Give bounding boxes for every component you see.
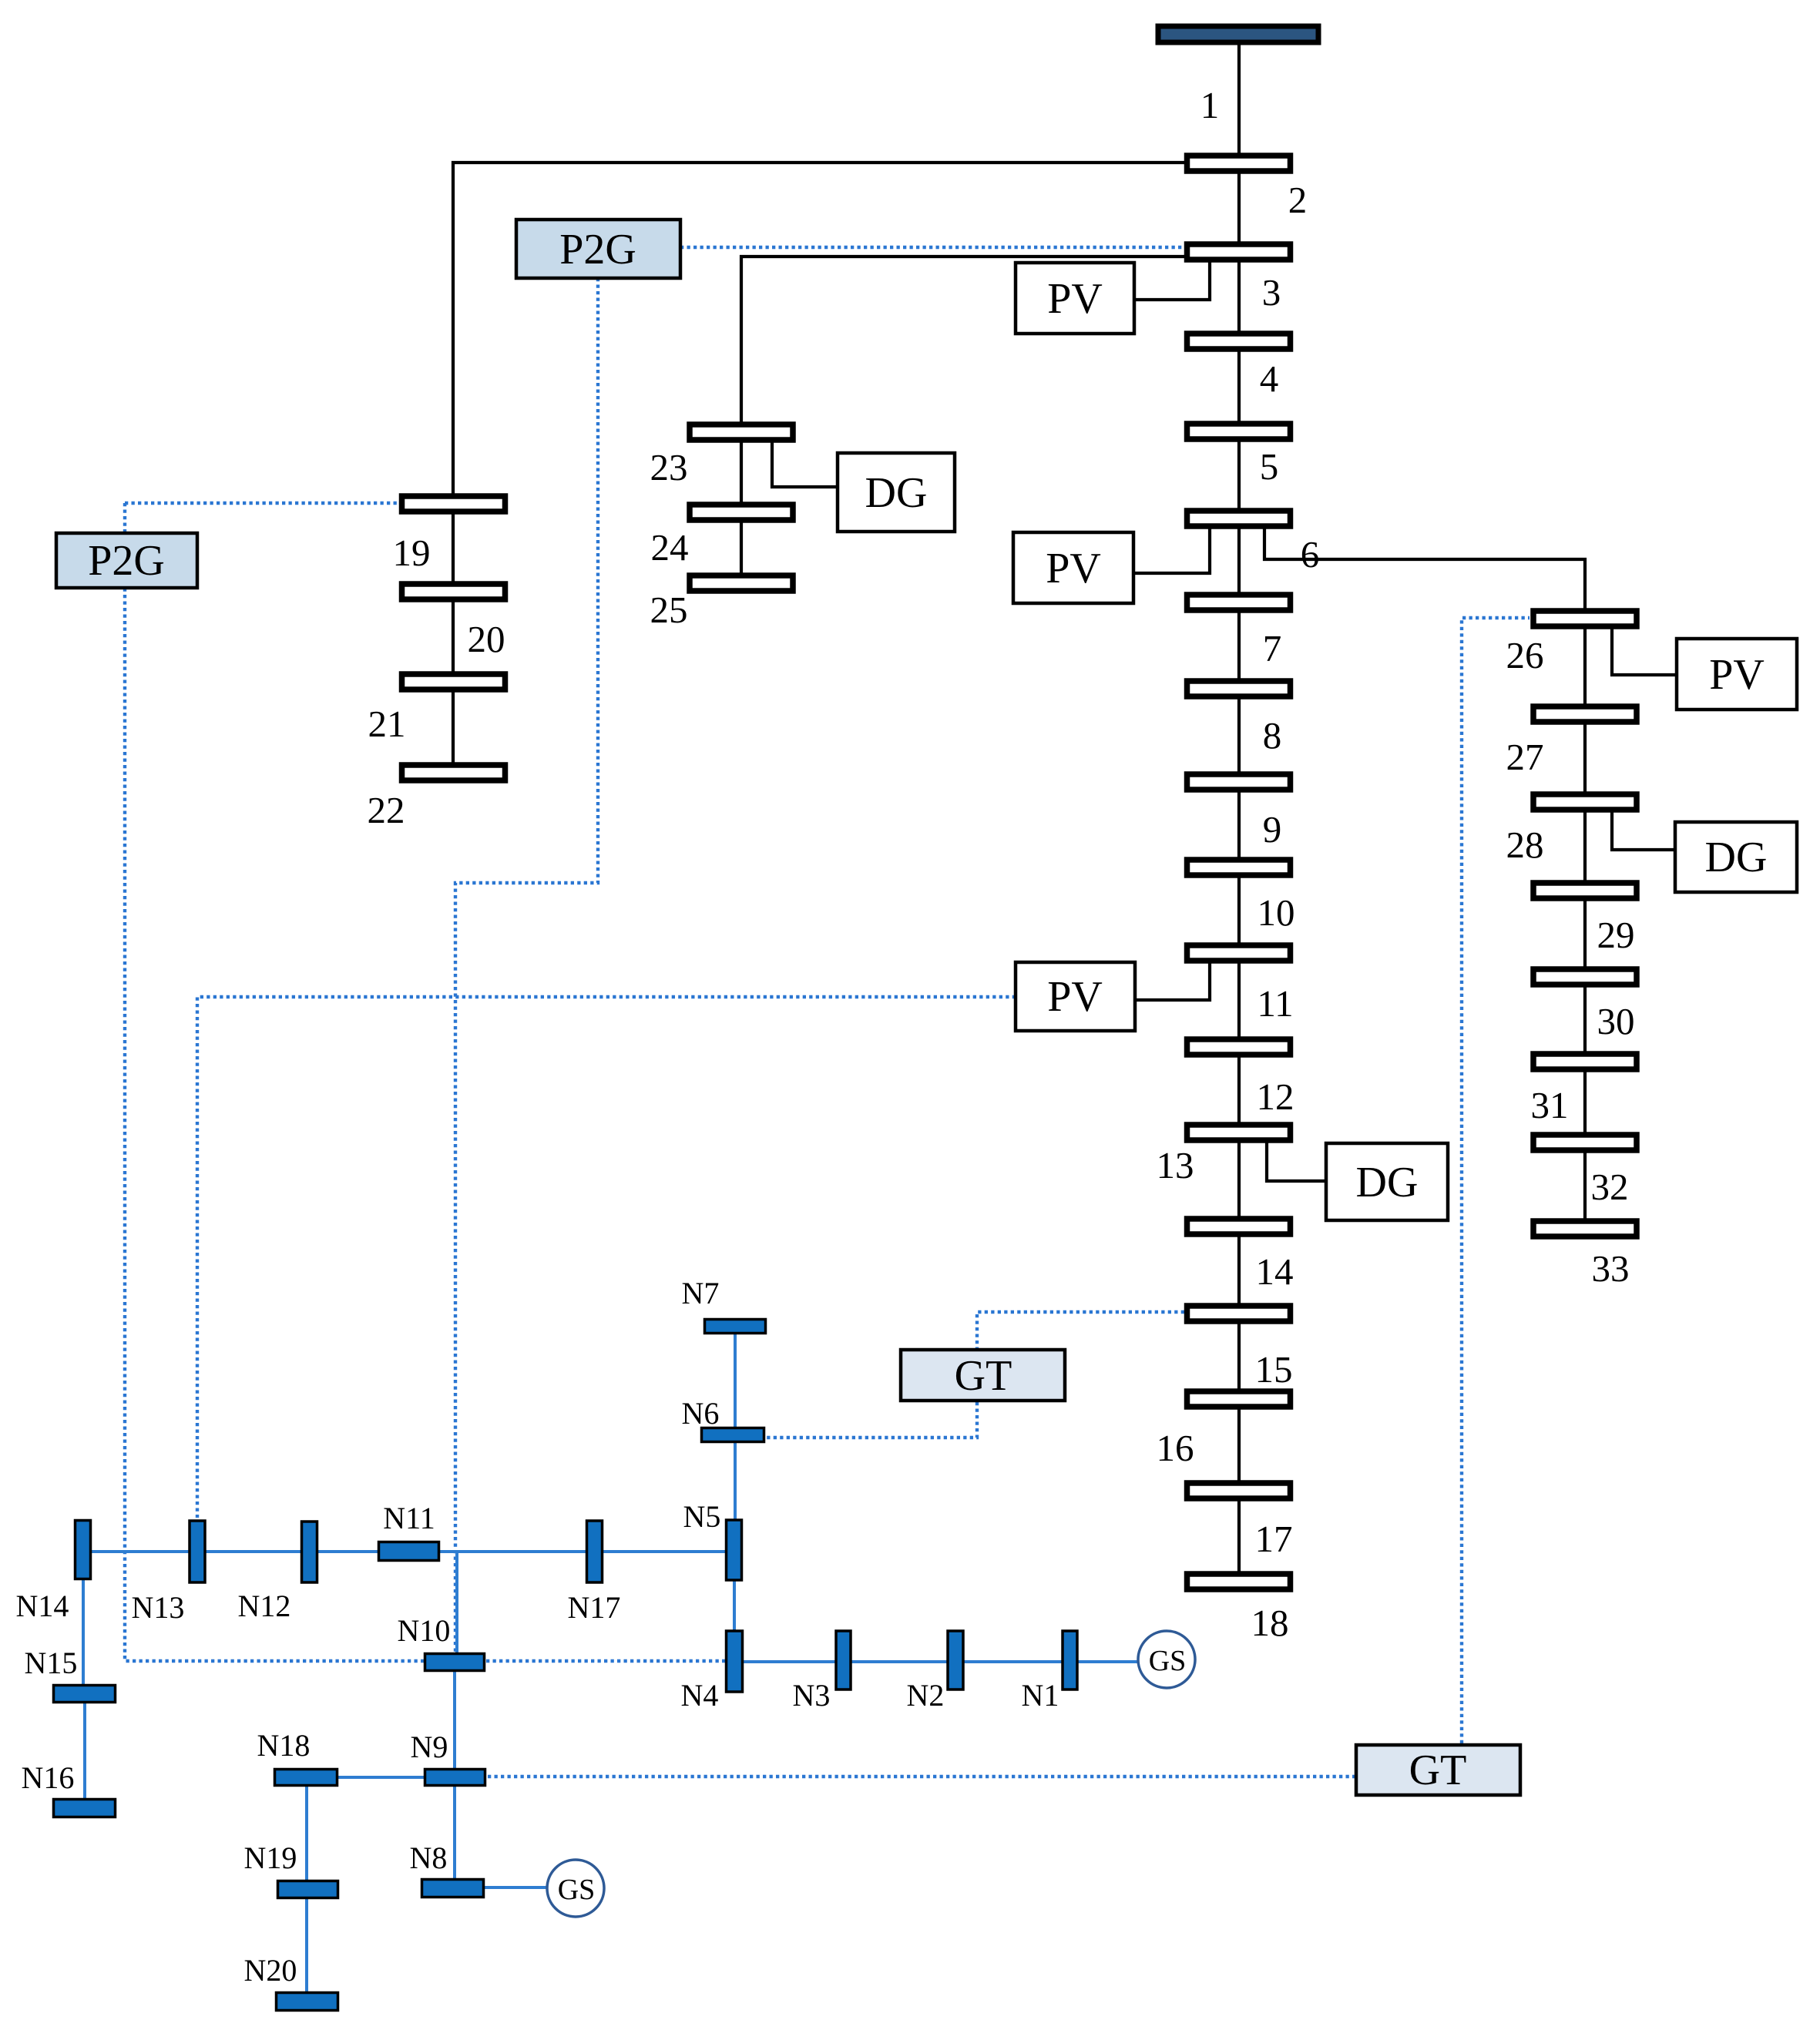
wire bus6 to PV2 [1133, 524, 1210, 573]
wire bus23 to DG1 [772, 439, 838, 487]
svg-text:12: 12 [1257, 1075, 1294, 1118]
svg-text:N17: N17 [568, 1590, 621, 1625]
bus 32 [1533, 1135, 1637, 1150]
svg-text:24: 24 [651, 526, 689, 569]
bus 29 [1533, 883, 1637, 898]
svg-text:33: 33 [1592, 1247, 1630, 1290]
pipe junction to N10 [455, 1552, 458, 1655]
svg-text:N16: N16 [22, 1760, 75, 1795]
pipe N4-GS1 [743, 1660, 1139, 1663]
bus 17 [1187, 1483, 1291, 1498]
wire bus 15 to GT1 coupling (dotted) [977, 1312, 1184, 1348]
bus 23 [690, 424, 793, 440]
svg-text:7: 7 [1263, 627, 1282, 669]
svg-text:26: 26 [1506, 634, 1544, 676]
gas node N8 [422, 1880, 484, 1897]
wire bus3 to PV1 [1134, 260, 1210, 300]
bus 12 [1187, 1039, 1291, 1055]
bus 7 [1187, 595, 1291, 610]
pipe N8-GS2 [483, 1886, 548, 1889]
svg-text:GT: GT [1409, 1746, 1467, 1794]
wire bus2 to bus19 branch [453, 163, 1187, 773]
svg-text:N11: N11 [383, 1501, 435, 1535]
wire bus11 to PV3 [1135, 958, 1210, 1000]
bus 33 [1533, 1221, 1637, 1236]
gas node N6 [702, 1428, 764, 1442]
gas node N14 [76, 1521, 91, 1579]
wire P2G2 to bus 19 coupling (dotted) [125, 502, 400, 505]
bus 19 [402, 496, 505, 512]
svg-text:N15: N15 [25, 1646, 78, 1680]
svg-text:5: 5 [1260, 445, 1279, 488]
gas source GS1 at N1 [1138, 1631, 1195, 1688]
pipe N7-N6 [734, 1333, 737, 1428]
pipe N15-N16 [83, 1702, 86, 1800]
bus 25 [690, 575, 793, 591]
svg-text:18: 18 [1251, 1602, 1289, 1644]
svg-text:6: 6 [1301, 533, 1320, 575]
pipe N18-N19 [305, 1785, 308, 1881]
gas node N9 [425, 1770, 485, 1786]
wire GT2 to bus 26 coupling (dotted) [1462, 618, 1530, 1743]
pipe N9-N8 [453, 1785, 456, 1880]
gas node N15 [54, 1686, 116, 1703]
bus 31 [1533, 1054, 1637, 1069]
bus 21 [402, 674, 505, 690]
wire bus26 to PV4 [1612, 624, 1677, 675]
gas node N10 [425, 1654, 485, 1671]
bus 8 [1187, 681, 1291, 696]
bus 22 [402, 765, 505, 780]
svg-text:11: 11 [1257, 982, 1293, 1025]
svg-text:N10: N10 [398, 1613, 451, 1648]
DG unit DG2 at bus 28 [1675, 822, 1797, 892]
svg-text:P2G: P2G [559, 226, 636, 273]
svg-text:3: 3 [1262, 271, 1281, 314]
pipe N14-N15 [82, 1579, 85, 1686]
svg-text:27: 27 [1506, 736, 1544, 778]
bus 10 [1187, 860, 1291, 875]
svg-text:16: 16 [1157, 1427, 1194, 1469]
svg-text:8: 8 [1263, 714, 1282, 757]
gas node N13 [190, 1521, 205, 1582]
svg-text:15: 15 [1255, 1348, 1293, 1391]
gas node N18 [275, 1770, 337, 1786]
PV unit PV3 at bus 11 [1016, 962, 1135, 1031]
svg-text:2: 2 [1288, 179, 1308, 221]
wire PV3 to N13 coupling (dotted) [197, 997, 1016, 1518]
svg-text:13: 13 [1157, 1144, 1194, 1186]
wire bus6 to bus26 branch [1264, 524, 1585, 1225]
bus 20 [402, 584, 505, 599]
svg-text:GS: GS [1149, 1645, 1187, 1677]
GT unit GT2 at bus 26 [1356, 1745, 1520, 1795]
svg-text:N8: N8 [410, 1840, 448, 1875]
GT unit GT1 at bus 15 [901, 1350, 1065, 1401]
bus 26 [1533, 611, 1637, 626]
bus 4 [1187, 334, 1291, 349]
svg-text:31: 31 [1531, 1084, 1569, 1126]
wire bus13 to DG3 [1267, 1138, 1326, 1181]
gas node N3 [836, 1631, 851, 1689]
wire P2G1 to N10 coupling (dotted) [455, 278, 598, 1653]
PV unit PV1 at bus 3 [1016, 263, 1134, 334]
wire bus28 to DG2 [1612, 807, 1675, 850]
wire bus3 to bus23 branch [741, 257, 1187, 582]
pipe N19-N20 [305, 1897, 308, 1993]
svg-text:N3: N3 [793, 1678, 831, 1713]
svg-text:17: 17 [1255, 1518, 1293, 1560]
svg-text:N18: N18 [257, 1728, 311, 1763]
svg-text:DG: DG [1356, 1159, 1419, 1206]
svg-text:22: 22 [368, 789, 405, 831]
svg-text:10: 10 [1258, 891, 1295, 934]
DG unit DG1 at bus 23 [838, 453, 955, 532]
pipe N18-N9 [338, 1776, 425, 1779]
bus 5 [1187, 424, 1291, 439]
gas node N16 [54, 1800, 116, 1817]
svg-text:28: 28 [1506, 824, 1544, 866]
wire N9 to GT2 coupling (dotted) [488, 1775, 1356, 1778]
P2G unit P2G1 (top) [516, 220, 680, 278]
svg-text:PV: PV [1709, 651, 1765, 699]
svg-text:N19: N19 [244, 1840, 297, 1875]
svg-text:N6: N6 [682, 1396, 720, 1431]
svg-text:GS: GS [558, 1874, 596, 1906]
gas node N19 [278, 1881, 338, 1898]
svg-text:PV: PV [1046, 545, 1101, 592]
wire main feeder bus1-bus18 [1237, 42, 1241, 1579]
gas node N12 [302, 1522, 317, 1582]
bus 24 [690, 505, 793, 520]
svg-text:PV: PV [1047, 973, 1103, 1021]
svg-text:P2G: P2G [88, 537, 165, 585]
svg-text:4: 4 [1260, 357, 1279, 400]
svg-text:9: 9 [1263, 808, 1282, 851]
wire P2G1 to bus 3 coupling (dotted) [680, 246, 1186, 249]
svg-text:23: 23 [650, 446, 688, 488]
bus 30 [1533, 969, 1637, 985]
gas node N11 [379, 1542, 439, 1561]
svg-text:25: 25 [650, 589, 688, 631]
gas node N4 [727, 1631, 743, 1692]
svg-text:21: 21 [368, 703, 406, 745]
svg-text:DG: DG [865, 469, 928, 517]
svg-text:20: 20 [468, 618, 505, 660]
PV unit PV4 at bus 26 [1677, 639, 1797, 710]
svg-text:30: 30 [1597, 1000, 1635, 1042]
svg-text:N9: N9 [411, 1730, 448, 1764]
svg-text:GT: GT [955, 1352, 1012, 1400]
gas node N2 [948, 1631, 963, 1689]
svg-text:19: 19 [393, 532, 431, 574]
bus 18 [1187, 1574, 1291, 1589]
svg-text:DG: DG [1705, 834, 1768, 881]
pipe main gas line N14-N5 [85, 1550, 728, 1553]
svg-text:29: 29 [1597, 914, 1635, 956]
svg-text:1: 1 [1200, 84, 1220, 126]
svg-text:N2: N2 [907, 1678, 945, 1713]
gas node N20 [277, 1993, 338, 2011]
svg-text:N20: N20 [244, 1953, 297, 1988]
bus 28 [1533, 794, 1637, 810]
pipe N6-N5 [734, 1442, 737, 1520]
PV unit PV2 at bus 6 [1013, 532, 1133, 603]
gas node N17 [587, 1521, 603, 1582]
pipe N10-N9 [453, 1670, 456, 1770]
wire GT1 to N6 coupling (dotted) [767, 1402, 977, 1438]
svg-text:N14: N14 [16, 1589, 69, 1623]
svg-text:PV: PV [1047, 275, 1103, 323]
bus 14 [1187, 1219, 1291, 1234]
bus 3 [1187, 244, 1291, 260]
svg-text:N13: N13 [132, 1590, 185, 1625]
bus 2 [1187, 156, 1291, 171]
gas source GS2 at N8 [547, 1860, 604, 1917]
svg-text:N12: N12 [238, 1589, 291, 1623]
bus 16 [1187, 1391, 1291, 1407]
bus 9 [1187, 774, 1291, 790]
svg-text:N1: N1 [1022, 1678, 1059, 1713]
svg-text:N5: N5 [683, 1499, 721, 1534]
bus 27 [1533, 706, 1637, 722]
bus 15 [1187, 1306, 1291, 1321]
svg-text:32: 32 [1591, 1166, 1629, 1208]
gas node N1 [1063, 1631, 1077, 1689]
pipe N5-N4 [733, 1580, 736, 1631]
svg-text:14: 14 [1256, 1250, 1294, 1293]
gas node N7 [705, 1320, 766, 1334]
svg-text:N4: N4 [681, 1678, 719, 1713]
bus 6 [1187, 511, 1291, 526]
bus 13 [1187, 1125, 1291, 1140]
DG unit DG3 at bus 13 [1326, 1143, 1448, 1220]
wire P2G2 to N4 coupling (dotted) [125, 503, 725, 1661]
bus 1 (slack, filled) [1158, 26, 1318, 42]
gas node N5 [727, 1520, 742, 1580]
P2G unit P2G2 (left) [56, 533, 197, 588]
bus 11 [1187, 945, 1291, 961]
svg-text:N7: N7 [682, 1276, 720, 1310]
